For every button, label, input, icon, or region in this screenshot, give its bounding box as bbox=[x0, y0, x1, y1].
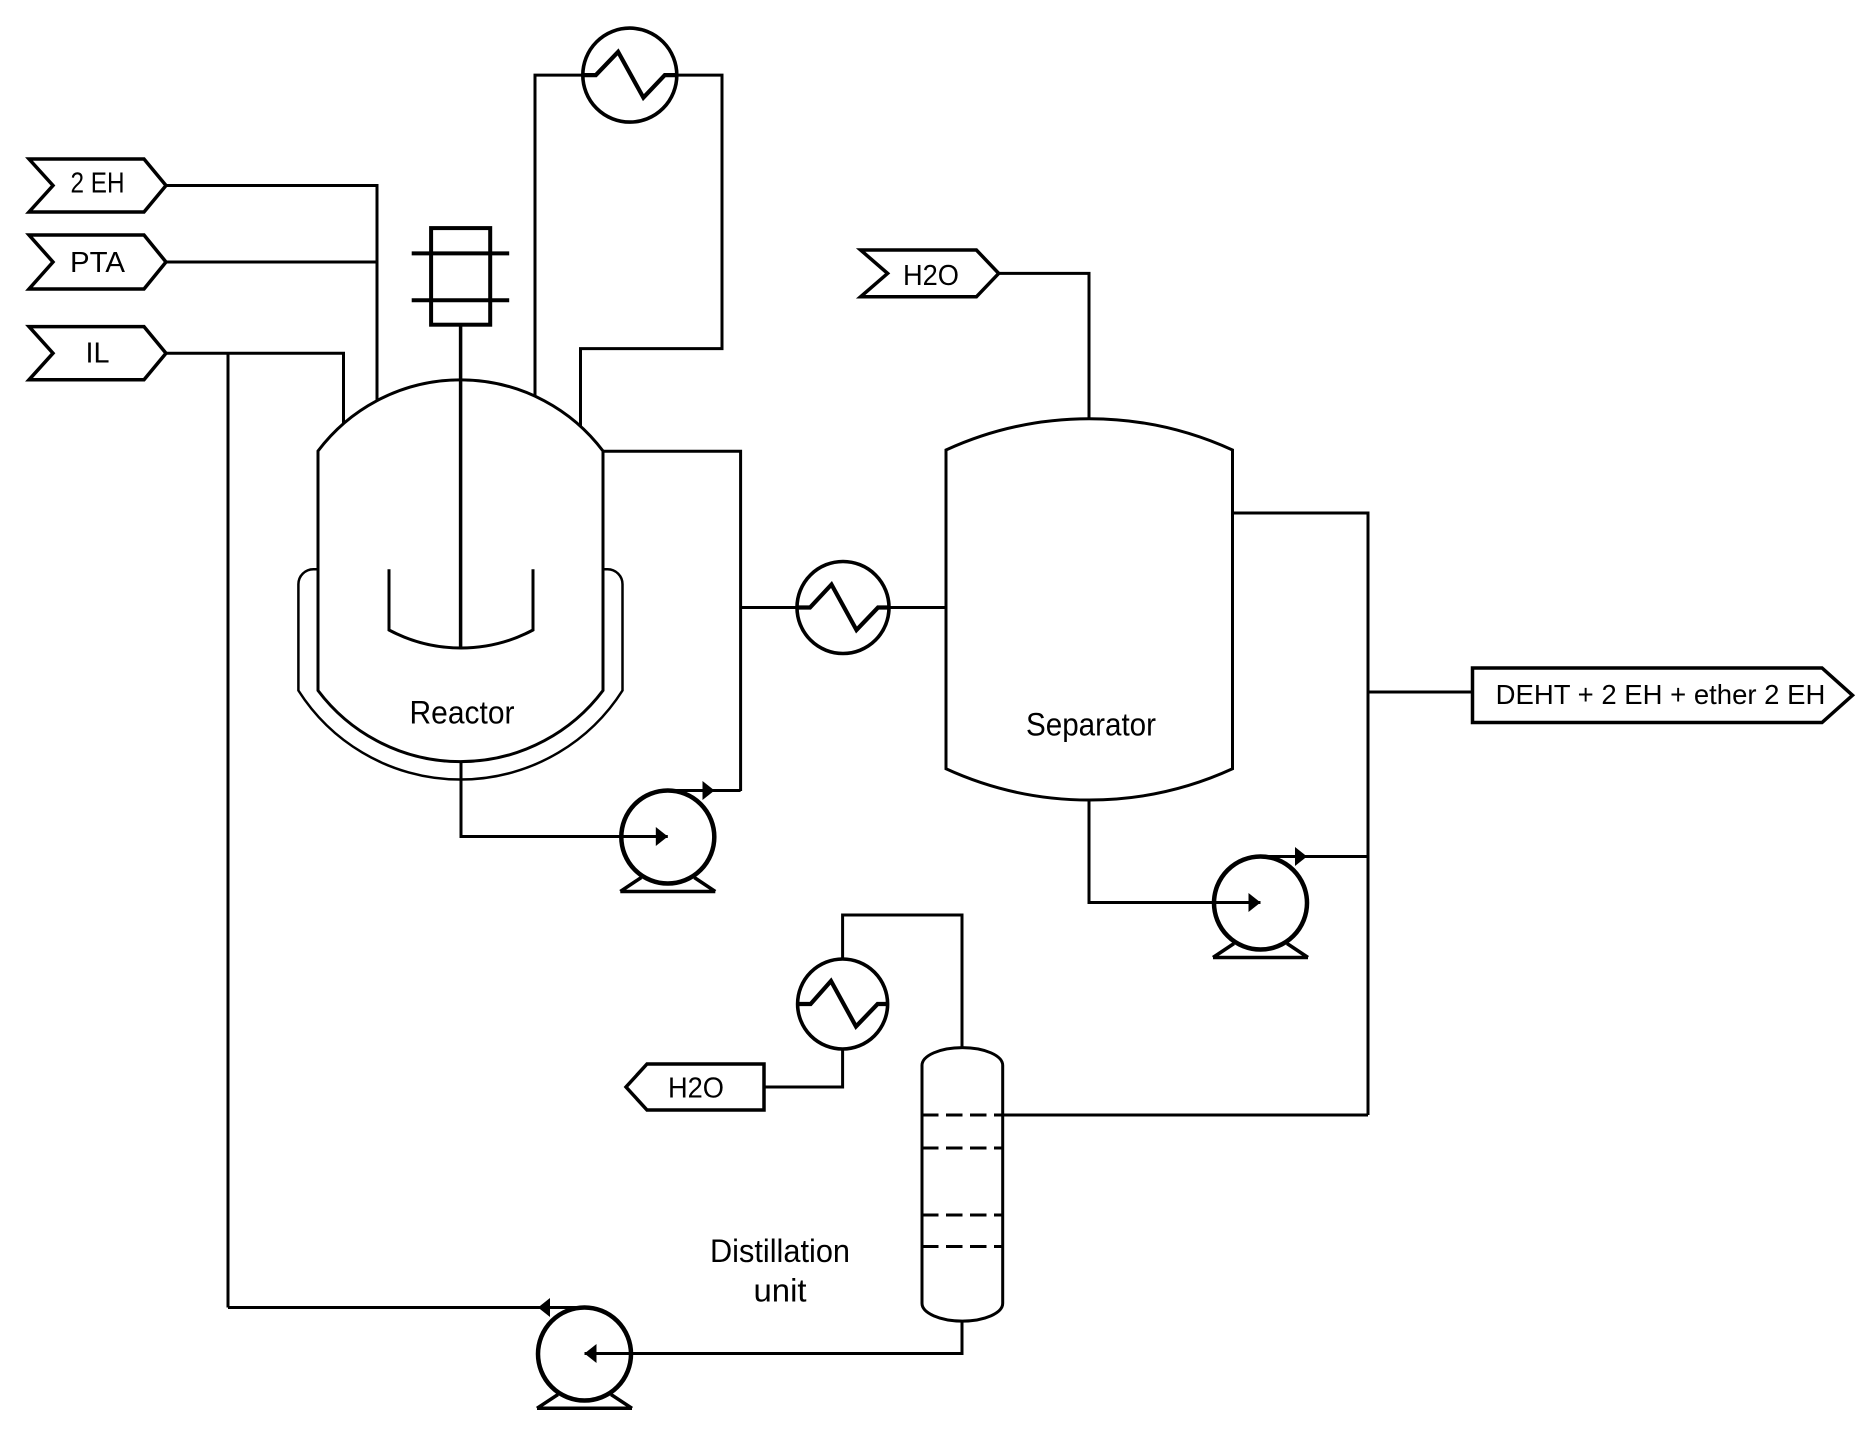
svg-text:IL: IL bbox=[86, 338, 110, 370]
arrow into P2 bbox=[1249, 893, 1261, 912]
pump P3 bbox=[537, 1308, 632, 1409]
heat exchanger E3 bbox=[798, 959, 888, 1049]
svg-text:Reactor: Reactor bbox=[410, 695, 515, 731]
pump P2 bbox=[1213, 857, 1308, 958]
heat exchanger E1 bbox=[583, 28, 677, 122]
wire separator bottoms to pump P2 bbox=[1089, 800, 1261, 903]
column tray dashed line 4 bbox=[922, 1245, 1003, 1248]
svg-text:H2O: H2O bbox=[903, 260, 959, 292]
wire header to column bbox=[1003, 1114, 1368, 1117]
column tray dashed line 1 bbox=[922, 1114, 1003, 1117]
wire reactor overhead bbox=[603, 451, 741, 791]
svg-text:unit: unit bbox=[754, 1273, 807, 1309]
wire to DEHT flag bbox=[1368, 691, 1473, 694]
pump P1 bbox=[620, 791, 715, 892]
arrow into P3 bbox=[585, 1344, 597, 1363]
wire E1 return to reactor bbox=[581, 75, 723, 426]
stream flag 2 EH bbox=[29, 159, 166, 212]
wire E2 to separator bbox=[889, 606, 946, 609]
wire E3 to H2O out flag bbox=[764, 1049, 843, 1087]
svg-text:Separator: Separator bbox=[1026, 707, 1156, 743]
arrow on P3 discharge bbox=[538, 1298, 550, 1317]
column tray dashed line 2 bbox=[922, 1147, 1003, 1150]
wire reactor bottoms to pump P1 bbox=[461, 761, 668, 837]
svg-text:PTA: PTA bbox=[70, 247, 126, 279]
stream flag H2O out bbox=[626, 1064, 764, 1110]
separator vessel bbox=[946, 419, 1233, 800]
label Distillation unit bbox=[710, 1233, 850, 1309]
wire to E2 bbox=[741, 606, 797, 609]
wire P1 discharge bbox=[668, 789, 741, 792]
column tray dashed line 3 bbox=[922, 1214, 1003, 1217]
arrow on P2 discharge bbox=[1295, 847, 1307, 866]
arrow on P1 discharge bbox=[703, 781, 715, 800]
reactor jacket bbox=[298, 569, 622, 779]
stream flag DEHT + 2 EH + ether 2 EH bbox=[1473, 668, 1853, 723]
wire IL recycle vertical bbox=[227, 353, 230, 1307]
wire separator overhead to right header bbox=[1233, 513, 1369, 1115]
svg-text:Distillation: Distillation bbox=[710, 1233, 850, 1269]
wire PTA feed joins 2 EH line bbox=[166, 261, 379, 264]
wire 2 EH feed to reactor bbox=[166, 186, 377, 401]
wire column overhead to E3 bbox=[843, 915, 962, 1048]
distillation column vessel bbox=[922, 1048, 1003, 1322]
wire IL feed to reactor bbox=[166, 353, 344, 424]
stream flag IL bbox=[29, 327, 166, 380]
wire H2O feed to separator bbox=[999, 273, 1089, 419]
svg-text:DEHT + 2 EH + ether 2 EH: DEHT + 2 EH + ether 2 EH bbox=[1496, 679, 1826, 710]
wire reactor to E1 bbox=[535, 75, 583, 396]
agitator motor M1 bbox=[412, 228, 510, 325]
svg-text:2 EH: 2 EH bbox=[71, 168, 125, 200]
wire P3 discharge recycle bbox=[228, 1306, 585, 1309]
stream flag PTA bbox=[29, 235, 166, 289]
svg-text:H2O: H2O bbox=[668, 1073, 724, 1105]
agitator shaft bbox=[459, 325, 463, 648]
wire P2 discharge to header bbox=[1261, 855, 1369, 858]
heat exchanger E2 bbox=[797, 562, 889, 654]
stream flag H2O feed bbox=[861, 250, 999, 297]
reactor vessel bbox=[318, 380, 603, 762]
reactor internal baffle U bbox=[389, 569, 533, 648]
wire column bottoms to pump P3 bbox=[585, 1321, 963, 1354]
arrow into P1 bbox=[656, 827, 668, 846]
